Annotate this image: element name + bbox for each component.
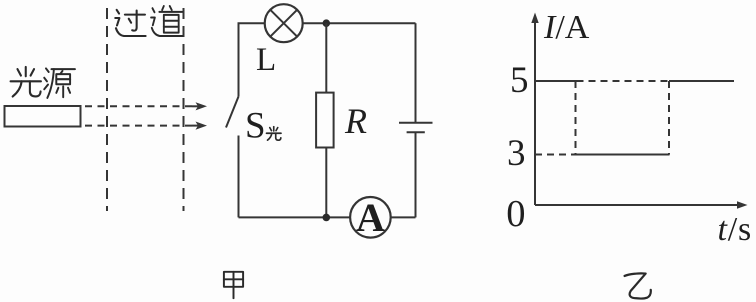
dashed vertical drop line right [668, 81, 670, 155]
dashed 5A reference middle segment [577, 80, 670, 82]
node: bottom junction dot [323, 214, 331, 222]
x-axis t/s [535, 201, 748, 208]
battery [399, 123, 433, 132]
wire: left rail bottom segment [238, 136, 240, 218]
light beam upper dashed arrow [85, 102, 207, 110]
wire: right rail top [415, 23, 417, 123]
svg-text:S: S [245, 106, 266, 147]
ammeter A [350, 195, 391, 240]
wire: top rail (lamp to right corner) [303, 22, 416, 24]
dashed 3A reference from axis [535, 154, 575, 156]
svg-text:I/A: I/A [543, 9, 590, 46]
lamp L [265, 4, 303, 42]
svg-text:0: 0 [506, 193, 525, 235]
dashed vertical drop line left [575, 81, 577, 155]
wire: middle branch top [325, 23, 327, 92]
svg-text:R: R [344, 101, 367, 141]
label 乙 [625, 273, 651, 298]
y-axis I/A [531, 13, 538, 206]
corridor right dashed wall [183, 8, 185, 211]
current curve: 3A solid segment [575, 154, 670, 156]
light source box [5, 106, 81, 127]
label 过道 (corridor) [115, 10, 145, 36]
node: top junction dot [323, 19, 331, 27]
wire: right rail bottom [415, 132, 417, 217]
switch S光 blade [226, 97, 239, 128]
wire: middle branch bottom [325, 148, 327, 218]
wire: left rail top segment [239, 23, 265, 96]
svg-text:A: A [356, 195, 385, 240]
resistor R [316, 93, 334, 148]
svg-text:L: L [256, 42, 276, 78]
wire: bottom rail [239, 216, 351, 218]
label 光源 (light source) [11, 67, 41, 97]
label 甲 [224, 272, 243, 298]
light beam lower dashed arrow [85, 122, 207, 130]
svg-text:5: 5 [510, 60, 529, 101]
corridor left dashed wall [106, 8, 108, 211]
svg-text:3: 3 [507, 133, 526, 174]
svg-text:t/s: t/s [718, 211, 753, 248]
wire: ammeter to bottom-right corner [391, 216, 416, 218]
current curve: 5A solid right segment [669, 80, 734, 82]
current curve: 5A solid left segment [535, 80, 577, 82]
